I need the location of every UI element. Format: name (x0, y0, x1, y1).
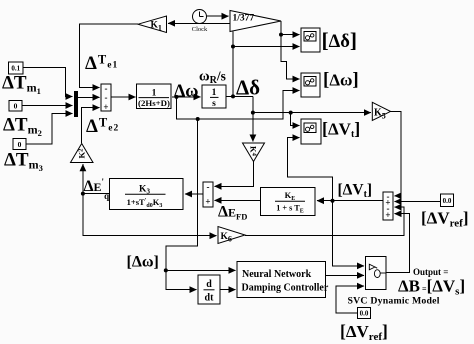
svg-text:-: - (207, 182, 210, 192)
svg-text:Damping Controller: Damping Controller (242, 283, 329, 294)
svg-text:[Δω]: [Δω] (323, 70, 359, 91)
svg-text:(2Hs+D): (2Hs+D) (138, 98, 170, 108)
svg-text:Δω: Δω (174, 81, 198, 101)
svg-text:d: d (206, 279, 212, 290)
svg-text:Output =: Output = (413, 267, 448, 277)
svg-text:K6: K6 (221, 232, 232, 244)
svg-text:[Δδ]: [Δδ] (322, 28, 358, 52)
svg-text:0.1: 0.1 (11, 65, 20, 73)
svg-text:Δδ: Δδ (236, 76, 260, 100)
svg-text:0.0: 0.0 (443, 197, 452, 205)
svg-text:1: 1 (212, 88, 217, 98)
svg-text:Neural Network: Neural Network (242, 269, 312, 280)
svg-text:dt: dt (205, 293, 215, 304)
svg-text:ΔB =[ΔVs]: ΔB =[ΔVs] (398, 277, 465, 298)
svg-text:+: + (205, 197, 210, 207)
svg-text:-: - (105, 93, 108, 103)
svg-text:+: + (385, 210, 390, 220)
svg-text:0.0: 0.0 (360, 310, 369, 318)
svg-text:[Δω]: [Δω] (127, 254, 159, 271)
svg-text:1/377: 1/377 (233, 14, 255, 24)
svg-text:s: s (212, 99, 216, 109)
svg-text:1: 1 (152, 89, 157, 99)
svg-text:+: + (103, 102, 108, 112)
svg-text:SVC Dynamic Model: SVC Dynamic Model (348, 296, 440, 307)
svg-text:[ΔVt]: [ΔVt] (338, 182, 373, 201)
svg-text:0: 0 (14, 102, 18, 111)
svg-text:[ΔVt]: [ΔVt] (322, 119, 360, 141)
svg-text:Clock: Clock (192, 26, 208, 33)
svg-text:0: 0 (18, 140, 22, 149)
